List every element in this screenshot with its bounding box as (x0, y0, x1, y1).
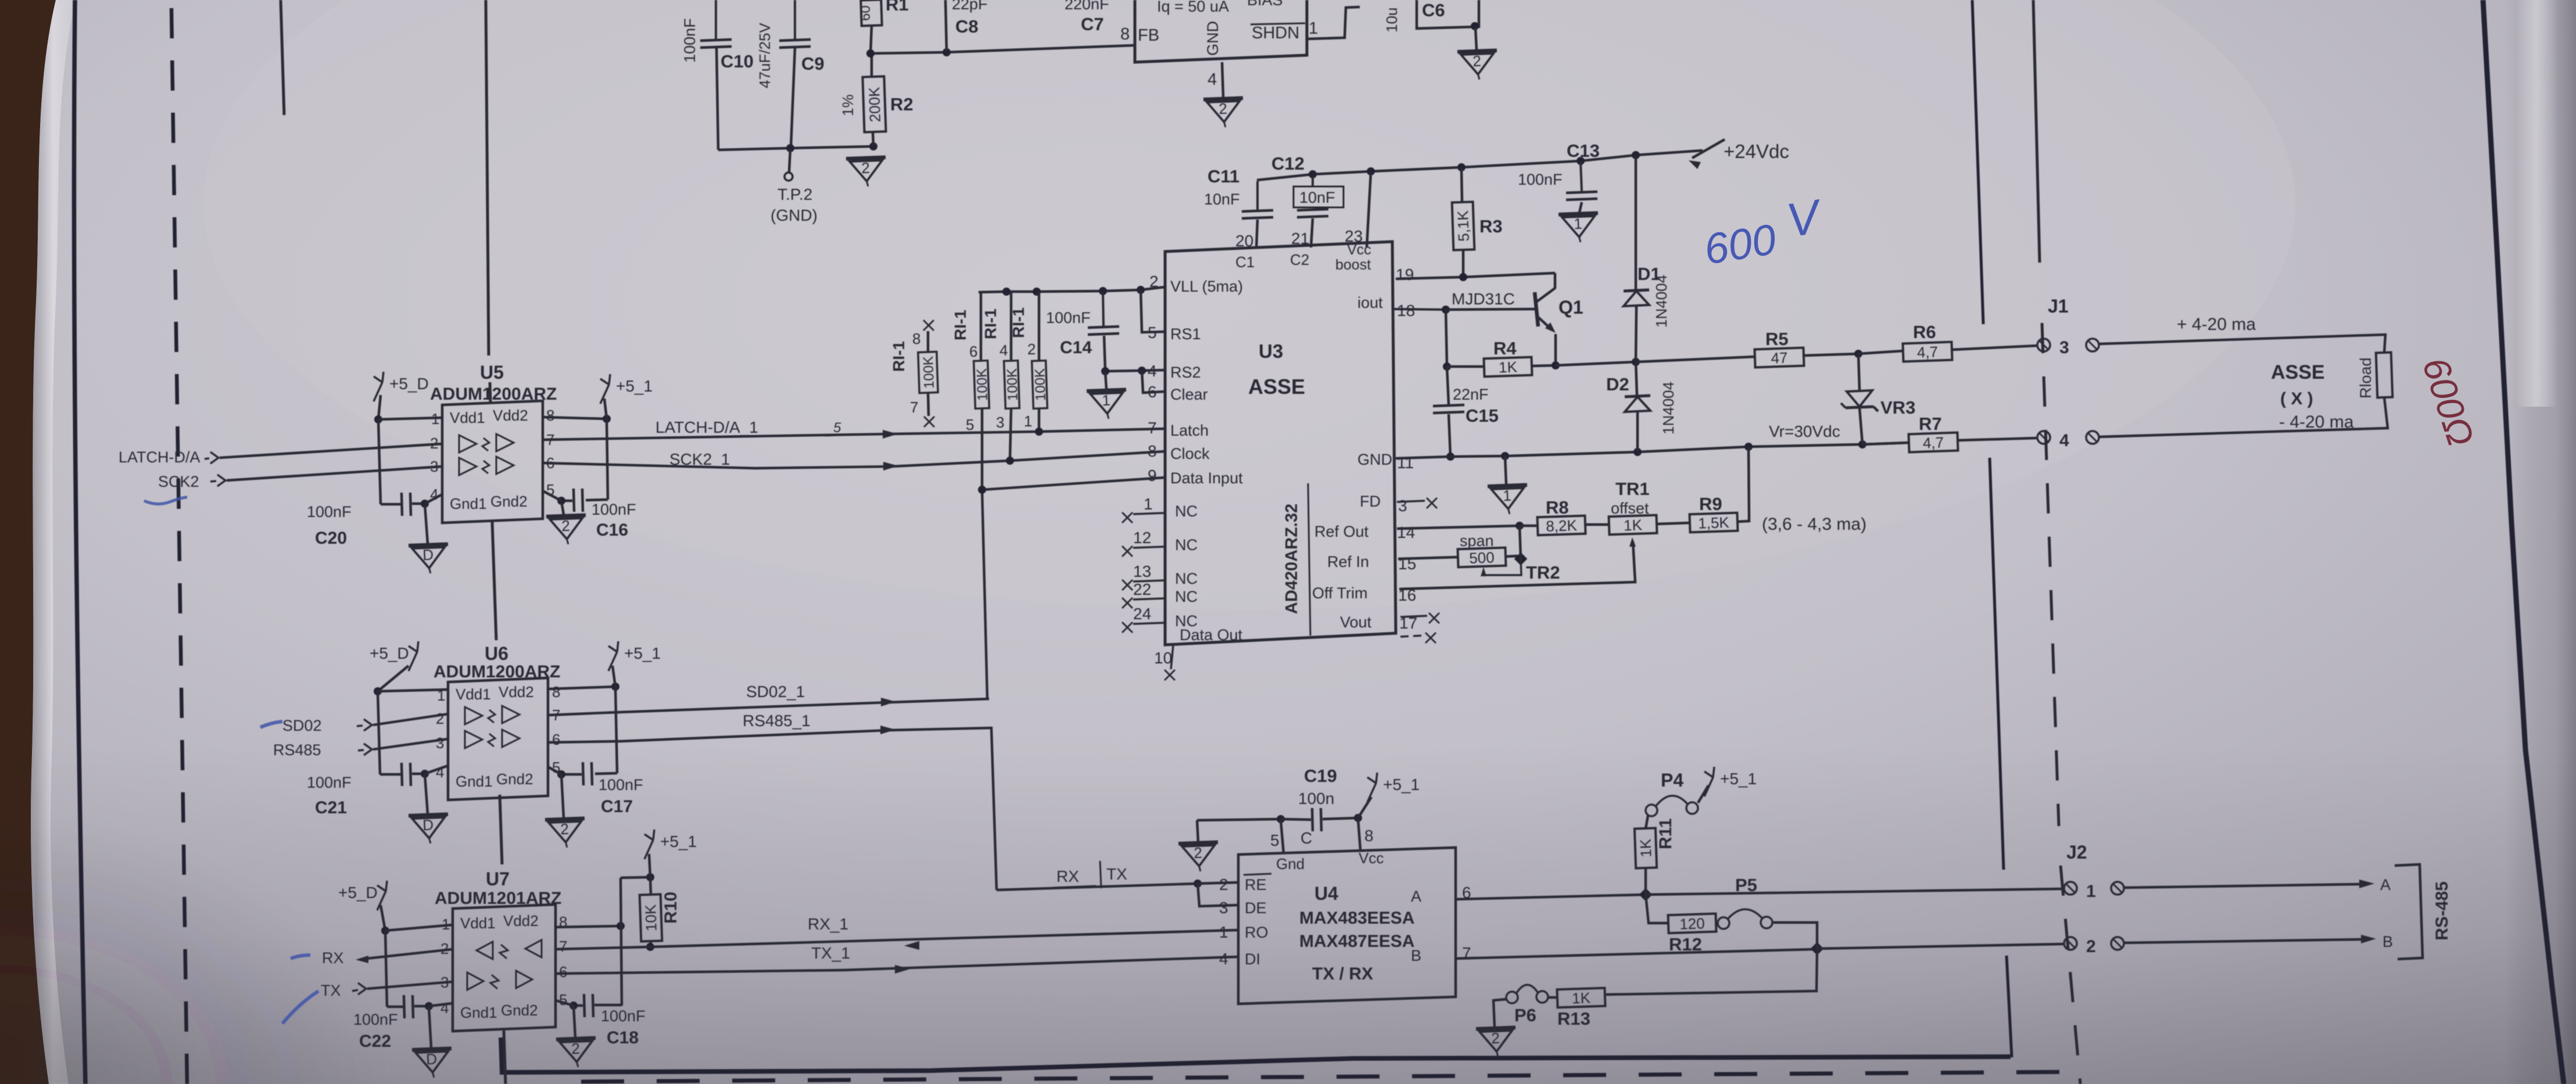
ground D below C21 (425, 774, 428, 814)
svg-text:C9: C9 (801, 53, 825, 74)
svg-text:2: 2 (2086, 937, 2096, 956)
wire U4 B output (1456, 949, 1815, 959)
svg-text:2: 2 (571, 1040, 581, 1058)
wire +5_D to U5 pin1 (378, 418, 442, 419)
svg-text:P6: P6 (1514, 1005, 1536, 1025)
inner border right lowest segment (2007, 956, 2012, 1057)
wire RS485_1 to RE (997, 884, 1198, 890)
svg-text:Gnd2: Gnd2 (496, 770, 533, 788)
wire J1 pin3 to Rload (2099, 335, 2385, 353)
diode D1 1N4004 (1635, 156, 1638, 290)
blue ink mark before SD02 (260, 722, 282, 727)
svg-text:1: 1 (1219, 923, 1228, 941)
svg-text:9: 9 (1148, 466, 1157, 484)
capacitor C15 22nF (1447, 367, 1449, 405)
svg-text:Vdd1: Vdd1 (460, 914, 496, 932)
svg-text:RX: RX (322, 949, 344, 967)
wire C21 to U6 pin4 (425, 766, 448, 774)
wire +5_D to U7 pin1 (385, 925, 453, 931)
U7 left column wire (385, 931, 387, 1007)
connector J1 vertical line upper solid (2033, 0, 2040, 263)
wire pin18 to R4/C15 column (1446, 310, 1447, 367)
svg-text:+5_1: +5_1 (1720, 770, 1757, 788)
svg-text:SHDN: SHDN (1252, 24, 1299, 42)
svg-text:TX_1: TX_1 (811, 944, 850, 962)
svg-text:C: C (1300, 829, 1312, 847)
svg-text:RS-485: RS-485 (2432, 881, 2452, 941)
connector J2 pin 2 (2064, 937, 2077, 950)
capacitor C8 22pF (945, 0, 947, 51)
svg-text:NC: NC (1175, 588, 1198, 605)
svg-text:47: 47 (1771, 349, 1788, 367)
wire C6 to ground (1471, 22, 1479, 30)
ground symbol below R2 (846, 157, 887, 188)
svg-text:C11: C11 (1208, 166, 1239, 186)
svg-text:- 4-20 ma: - 4-20 ma (2279, 412, 2354, 432)
svg-text:LATCH-D/A_1: LATCH-D/A_1 (655, 418, 758, 436)
svg-text:Vdd2: Vdd2 (503, 912, 539, 929)
wire +5_D to U6 pin1 (378, 690, 448, 691)
svg-text:R6: R6 (1913, 322, 1936, 342)
svg-text:SD02_1: SD02_1 (746, 683, 805, 701)
resistor R6 4.7 (1858, 351, 1903, 354)
svg-text:10: 10 (1154, 649, 1172, 667)
blue handwriting 600 V (1698, 189, 1829, 273)
svg-text:7: 7 (910, 399, 918, 416)
svg-text:1: 1 (2086, 882, 2096, 901)
svg-text:ADUM1201ARZ: ADUM1201ARZ (435, 889, 561, 908)
svg-text:C7: C7 (1081, 14, 1104, 34)
U6 right column wire to C17 (615, 687, 617, 773)
svg-text:Iq = 50 uA: Iq = 50 uA (1157, 0, 1229, 15)
svg-text:C2: C2 (1290, 251, 1309, 268)
svg-text:22pF: 22pF (952, 0, 988, 13)
svg-text:3: 3 (436, 734, 444, 752)
svg-text:2: 2 (1194, 844, 1203, 862)
svg-text:C19: C19 (1304, 766, 1337, 786)
bottom dashed border (581, 1072, 2083, 1082)
ground symbol below pin 11 (1505, 456, 1506, 484)
paper right edge shadow (2505, 0, 2576, 1084)
svg-text:C1: C1 (1235, 253, 1255, 271)
capacitor C9 (794, 0, 796, 40)
capacitor C22 100nF (387, 1006, 403, 1008)
ground symbol below P6 (1476, 1028, 1517, 1058)
wire U5 pin5 to C16 (543, 491, 561, 501)
svg-text:U6: U6 (485, 643, 508, 664)
svg-text:4: 4 (1219, 950, 1228, 968)
svg-text:BIAS: BIAS (1247, 0, 1283, 9)
svg-text:R1: R1 (886, 0, 909, 15)
sheet right border line (2483, 0, 2564, 1084)
svg-text:2: 2 (560, 820, 569, 838)
isolation barrier vertical segment above U5 (486, 0, 489, 356)
svg-text:100nF: 100nF (307, 774, 352, 791)
svg-text:3: 3 (1398, 497, 1407, 515)
blue ink mark before TX (282, 991, 318, 1024)
svg-text:Vout: Vout (1340, 613, 1372, 631)
svg-text:5: 5 (1270, 831, 1280, 849)
svg-text:ADUM1200ARZ: ADUM1200ARZ (430, 385, 557, 404)
svg-text:2: 2 (561, 517, 571, 535)
svg-text:RS1: RS1 (1170, 325, 1201, 343)
IC U6 ADUM1200ARZ box (448, 678, 548, 800)
node FB rail (870, 45, 1135, 53)
svg-text:22nF: 22nF (1453, 386, 1489, 403)
svg-text:RS485: RS485 (273, 741, 321, 759)
svg-text:DE: DE (1245, 899, 1267, 917)
svg-text:GND: GND (1204, 21, 1221, 56)
+24V rail wire (1257, 150, 1703, 180)
svg-text:100K: 100K (1032, 368, 1049, 401)
svg-text:Data Out: Data Out (1180, 626, 1243, 644)
svg-text:11: 11 (1397, 454, 1414, 472)
svg-text:4,7: 4,7 (1922, 433, 1944, 451)
connector J2 pin 1 (2064, 882, 2077, 895)
svg-text:2: 2 (1219, 875, 1228, 893)
svg-text:RS485_1: RS485_1 (743, 712, 811, 730)
wire pin15 Ref In to span (1398, 557, 1458, 559)
svg-text:200K: 200K (865, 86, 884, 122)
svg-text:Clock: Clock (1170, 445, 1210, 462)
svg-text:100nF: 100nF (681, 18, 698, 63)
svg-text:4: 4 (436, 763, 444, 781)
svg-text:Latch: Latch (1170, 422, 1209, 439)
svg-text:100nF: 100nF (353, 1011, 398, 1028)
paper bottom shadow (35, 744, 2576, 1084)
U5 +5_D supply (374, 382, 382, 401)
svg-text:R10: R10 (661, 892, 680, 924)
svg-text:Data Input: Data Input (1170, 469, 1243, 487)
svg-text:GND: GND (1357, 451, 1392, 468)
svg-text:FD: FD (1360, 493, 1381, 510)
svg-text:Ref Out: Ref Out (1314, 523, 1369, 540)
svg-text:5: 5 (833, 420, 841, 436)
ground symbol below C6 (1457, 51, 1498, 81)
resistor R9 1.5K (1689, 513, 1737, 533)
svg-text:8: 8 (1120, 25, 1130, 44)
svg-text:+ 4-20 ma: + 4-20 ma (2177, 315, 2256, 334)
svg-text:1: 1 (1144, 495, 1153, 513)
svg-text:Gnd1: Gnd1 (450, 495, 487, 512)
U7 isolator channel triangles (525, 940, 542, 957)
svg-text:RI-1: RI-1 (890, 341, 908, 372)
svg-text:4: 4 (999, 342, 1008, 359)
svg-text:TR1: TR1 (1615, 479, 1650, 499)
svg-text:6: 6 (546, 454, 554, 472)
isolation barrier segment U5-U6 (492, 522, 496, 640)
svg-text:1K: 1K (1624, 516, 1643, 534)
svg-text:1%: 1% (839, 94, 857, 116)
svg-text:10u: 10u (1383, 8, 1400, 33)
svg-text:10nF: 10nF (1299, 189, 1335, 206)
resistor R11 1K with P4 jumper (1645, 868, 1647, 895)
svg-text:Rload: Rload (2357, 357, 2374, 399)
wire C22 to U7 pin4 (429, 1003, 453, 1006)
wire B to J2 pin 2 (1817, 944, 2064, 949)
wire Clear branch (1142, 371, 1165, 393)
wire SCK2_1 net (543, 451, 1165, 468)
svg-text:AD420ARZ.32: AD420ARZ.32 (1282, 504, 1301, 614)
svg-text:8: 8 (552, 683, 560, 701)
resistor R3 5.1K (1461, 168, 1462, 202)
svg-text:SCK2: SCK2 (158, 473, 199, 490)
svg-text:U4: U4 (1314, 883, 1338, 904)
svg-text:4: 4 (1208, 70, 1217, 89)
svg-text:R9: R9 (1699, 494, 1722, 514)
wire R9 to GND net (1737, 447, 1749, 522)
blue ink mark under SCK2 (144, 497, 187, 504)
svg-text:18: 18 (1397, 301, 1415, 320)
svg-text:2: 2 (436, 710, 444, 727)
svg-text:span: span (1460, 532, 1494, 550)
svg-text:R2: R2 (890, 94, 913, 114)
regulator GND pin 4 wire (1222, 62, 1223, 97)
node VLL rail (979, 287, 1165, 292)
capacitor C13 100nF (1581, 162, 1582, 192)
svg-text:B: B (1411, 947, 1421, 964)
svg-text:2: 2 (861, 159, 870, 177)
svg-text:LATCH-D/A: LATCH-D/A (119, 448, 200, 466)
svg-text:Off Trim: Off Trim (1312, 584, 1368, 602)
svg-text:C20: C20 (315, 529, 347, 548)
sheet left border line (74, 0, 85, 1084)
wire RX_1 net (556, 930, 1238, 949)
svg-text:120: 120 (1679, 914, 1705, 932)
wire J2 pin1 to A (2124, 884, 2360, 888)
svg-text:2: 2 (1491, 1029, 1500, 1047)
blue ink mark before RX (291, 955, 310, 959)
resistor R12 120 termination branch (1646, 895, 1668, 923)
wire pin 23 to rail (1367, 173, 1371, 247)
wire P6 to ground (1493, 999, 1506, 1027)
wire pin17 Vout stub (1400, 616, 1427, 617)
svg-text:20: 20 (1235, 232, 1253, 250)
connector J1 pin 4 (2037, 431, 2050, 444)
wire from SHDN pin 1 (1307, 7, 1360, 39)
red handwriting 600 ohm (2414, 353, 2482, 451)
wire U6 pin5 to C17 (548, 767, 561, 774)
potentiometer TR1 offset 1K (1608, 515, 1657, 535)
IC U4 MAX483EESA box (1238, 848, 1456, 1004)
svg-text:1: 1 (1574, 215, 1583, 233)
svg-text:1K: 1K (1499, 358, 1518, 376)
wire TX_1 net (556, 957, 1238, 974)
sheet left dashed border (171, 8, 187, 1084)
wire RS2 branch (1105, 370, 1165, 371)
svg-text:C13: C13 (1567, 141, 1600, 161)
wire D junction to R5 (1636, 357, 1755, 362)
svg-text:6: 6 (552, 731, 560, 748)
svg-text:NC: NC (1175, 570, 1198, 587)
svg-text:100nF: 100nF (599, 776, 643, 794)
svg-text:Clear: Clear (1170, 386, 1208, 403)
svg-text:2: 2 (1219, 100, 1228, 118)
svg-text:NC: NC (1175, 502, 1198, 520)
resistor R10 10K (640, 894, 662, 941)
zener diode VR3 (1858, 354, 1860, 390)
svg-text:R3: R3 (1479, 216, 1503, 236)
wire pin16 Off Trim to TR1 wiper (1399, 541, 1635, 589)
wire pin14 Ref Out (1397, 526, 1520, 529)
ground symbol below U7 pin5 (574, 1006, 575, 1038)
U6 pin8 +5_1 node (548, 687, 615, 689)
svg-text:P5: P5 (1735, 875, 1757, 895)
svg-text:5,1K: 5,1K (1454, 210, 1472, 242)
svg-text:DI: DI (1245, 950, 1260, 968)
svg-text:MJD31C: MJD31C (1452, 290, 1515, 308)
svg-text:RS2: RS2 (1170, 364, 1201, 381)
svg-text:U3: U3 (1259, 340, 1283, 362)
svg-text:TR2: TR2 (1526, 562, 1560, 583)
svg-text:1: 1 (1503, 487, 1512, 505)
svg-text:100K: 100K (1004, 368, 1021, 401)
svg-text:SD02: SD02 (282, 717, 322, 734)
svg-text:4: 4 (440, 999, 449, 1017)
ground symbol below C13 (1579, 202, 1582, 213)
capacitor C20 100nF (381, 503, 401, 506)
svg-text:1K: 1K (1572, 989, 1591, 1007)
svg-text:TX: TX (321, 982, 341, 999)
svg-text:R11: R11 (1656, 819, 1675, 849)
svg-text:Vdd1: Vdd1 (450, 409, 485, 426)
svg-text:13: 13 (1133, 562, 1151, 580)
svg-text:R7: R7 (1919, 414, 1942, 434)
svg-text:+5_1: +5_1 (660, 832, 697, 850)
svg-text:3: 3 (1219, 899, 1228, 917)
isolation barrier segment below U7 (504, 1031, 506, 1084)
resistor R8 8.2K (1520, 525, 1538, 527)
svg-text:ADUM1200ARZ: ADUM1200ARZ (433, 662, 560, 681)
wire C19 to U4 pin5 (1281, 820, 1284, 854)
wire +5_1 to U4 pin8 Vcc (1358, 819, 1360, 849)
svg-text:3: 3 (996, 414, 1004, 431)
svg-text:RI-1: RI-1 (951, 310, 969, 340)
svg-text:+5_D: +5_D (389, 375, 429, 393)
transistor Q1 MJD31C (1535, 292, 1538, 326)
svg-text:Gnd: Gnd (1276, 855, 1305, 873)
capacitor C18 100nF (574, 1004, 583, 1007)
svg-text:100nF: 100nF (307, 503, 352, 521)
svg-text:220nF: 220nF (1065, 0, 1109, 13)
svg-text:RE: RE (1245, 876, 1267, 893)
svg-text:Q1: Q1 (1559, 297, 1583, 318)
wire Data Input net / SD02 vertical (982, 478, 1165, 699)
ground symbol below U6 pin5 (561, 774, 564, 818)
svg-text:1N4004: 1N4004 (1660, 382, 1677, 435)
svg-text:Gnd2: Gnd2 (501, 1002, 538, 1019)
IC regulator (top, cut off) box (1135, 0, 1307, 62)
svg-text:RI-1: RI-1 (1009, 307, 1027, 338)
svg-text:MAX487EESA: MAX487EESA (1299, 932, 1414, 951)
U5 right column wire to C16 (607, 419, 608, 500)
svg-text:C15: C15 (1466, 405, 1499, 426)
svg-text:R12: R12 (1669, 934, 1702, 954)
svg-text:Gnd2: Gnd2 (490, 493, 528, 510)
svg-text:(GND): (GND) (771, 206, 818, 224)
svg-text:1: 1 (1024, 412, 1032, 430)
resistor R5 47 (1754, 348, 1804, 368)
svg-text:3: 3 (2059, 338, 2069, 357)
potentiometer TR2 span 500 (1457, 548, 1506, 568)
svg-text:VLL (5ma): VLL (5ma) (1170, 278, 1243, 295)
ground D below C22 (429, 1007, 431, 1048)
thick bottom line of isolated zone (501, 1038, 2011, 1072)
resistor R13 1K / P6 branch (1606, 949, 1817, 995)
vertical +5_1/C18 wire (621, 878, 622, 1006)
svg-text:5: 5 (966, 416, 974, 433)
svg-text:C8: C8 (955, 16, 979, 37)
svg-text:C22: C22 (359, 1032, 391, 1051)
svg-text:U7: U7 (486, 868, 510, 889)
svg-text:100n: 100n (1298, 789, 1334, 807)
svg-text:A: A (1411, 888, 1421, 905)
wire RS1 branch (1141, 290, 1165, 332)
+24Vdc arrow (1692, 139, 1725, 158)
wire SD02_1 net (548, 699, 989, 715)
capacitor C10 (715, 0, 717, 40)
svg-text:100K: 100K (974, 368, 991, 401)
svg-text:Vdd1: Vdd1 (456, 685, 491, 703)
svg-text:5: 5 (559, 991, 567, 1008)
svg-text:Vcc: Vcc (1359, 849, 1384, 867)
svg-text:offset: offset (1611, 500, 1649, 517)
connector J2 dashed line lower (2061, 866, 2080, 1084)
capacitor C14 100nF (1103, 292, 1104, 326)
U6 isolator channel triangles (502, 706, 520, 723)
svg-text:500: 500 (1469, 548, 1495, 566)
svg-text:8,2K: 8,2K (1546, 516, 1578, 535)
IC U3 AD420ARZ-32 box (1165, 242, 1396, 645)
IC U7 ADUM1201ARZ box (453, 904, 556, 1031)
svg-text:8: 8 (912, 330, 920, 347)
svg-text:boost: boost (1335, 257, 1371, 273)
svg-text:D2: D2 (1606, 374, 1629, 394)
svg-text:C10: C10 (721, 51, 754, 71)
svg-text:R8: R8 (1546, 497, 1569, 518)
svg-text:D: D (426, 1050, 438, 1068)
svg-text:NC: NC (1175, 536, 1198, 554)
GND net wire pin11 (1396, 443, 1909, 458)
svg-text:J1: J1 (2048, 296, 2069, 317)
svg-text:RX: RX (1056, 867, 1079, 885)
svg-text:7: 7 (559, 938, 567, 955)
svg-text:VR3: VR3 (1880, 397, 1915, 418)
svg-text:RI-1: RI-1 (981, 308, 999, 339)
isolation barrier segment U6-U7 (500, 795, 502, 864)
svg-text:Vr=30Vdc: Vr=30Vdc (1769, 422, 1840, 440)
resistor R1 604 (861, 0, 882, 26)
test point T.P.2 (789, 149, 790, 172)
resistor R7 4.7 (1862, 443, 1909, 444)
wire RE to DE (1198, 884, 1238, 906)
RS-485 bracket (2395, 864, 2423, 959)
U4 ground (1178, 842, 1219, 873)
svg-text:RO: RO (1245, 924, 1269, 941)
capacitor C11 10nF (1256, 181, 1259, 210)
svg-text:+5_D: +5_D (370, 644, 409, 662)
svg-text:U5: U5 (480, 362, 504, 383)
capacitor C19 100n (1281, 819, 1311, 820)
svg-text:1: 1 (1309, 19, 1318, 38)
svg-text:60: 60 (858, 5, 873, 21)
U6 left column wire (378, 691, 380, 774)
svg-text:24: 24 (1133, 605, 1151, 623)
svg-text:4: 4 (2059, 431, 2069, 450)
wire Q1 emitter to D junction (1556, 362, 1636, 365)
svg-text:iout: iout (1357, 294, 1383, 311)
paper left edge highlight (31, 0, 76, 1084)
